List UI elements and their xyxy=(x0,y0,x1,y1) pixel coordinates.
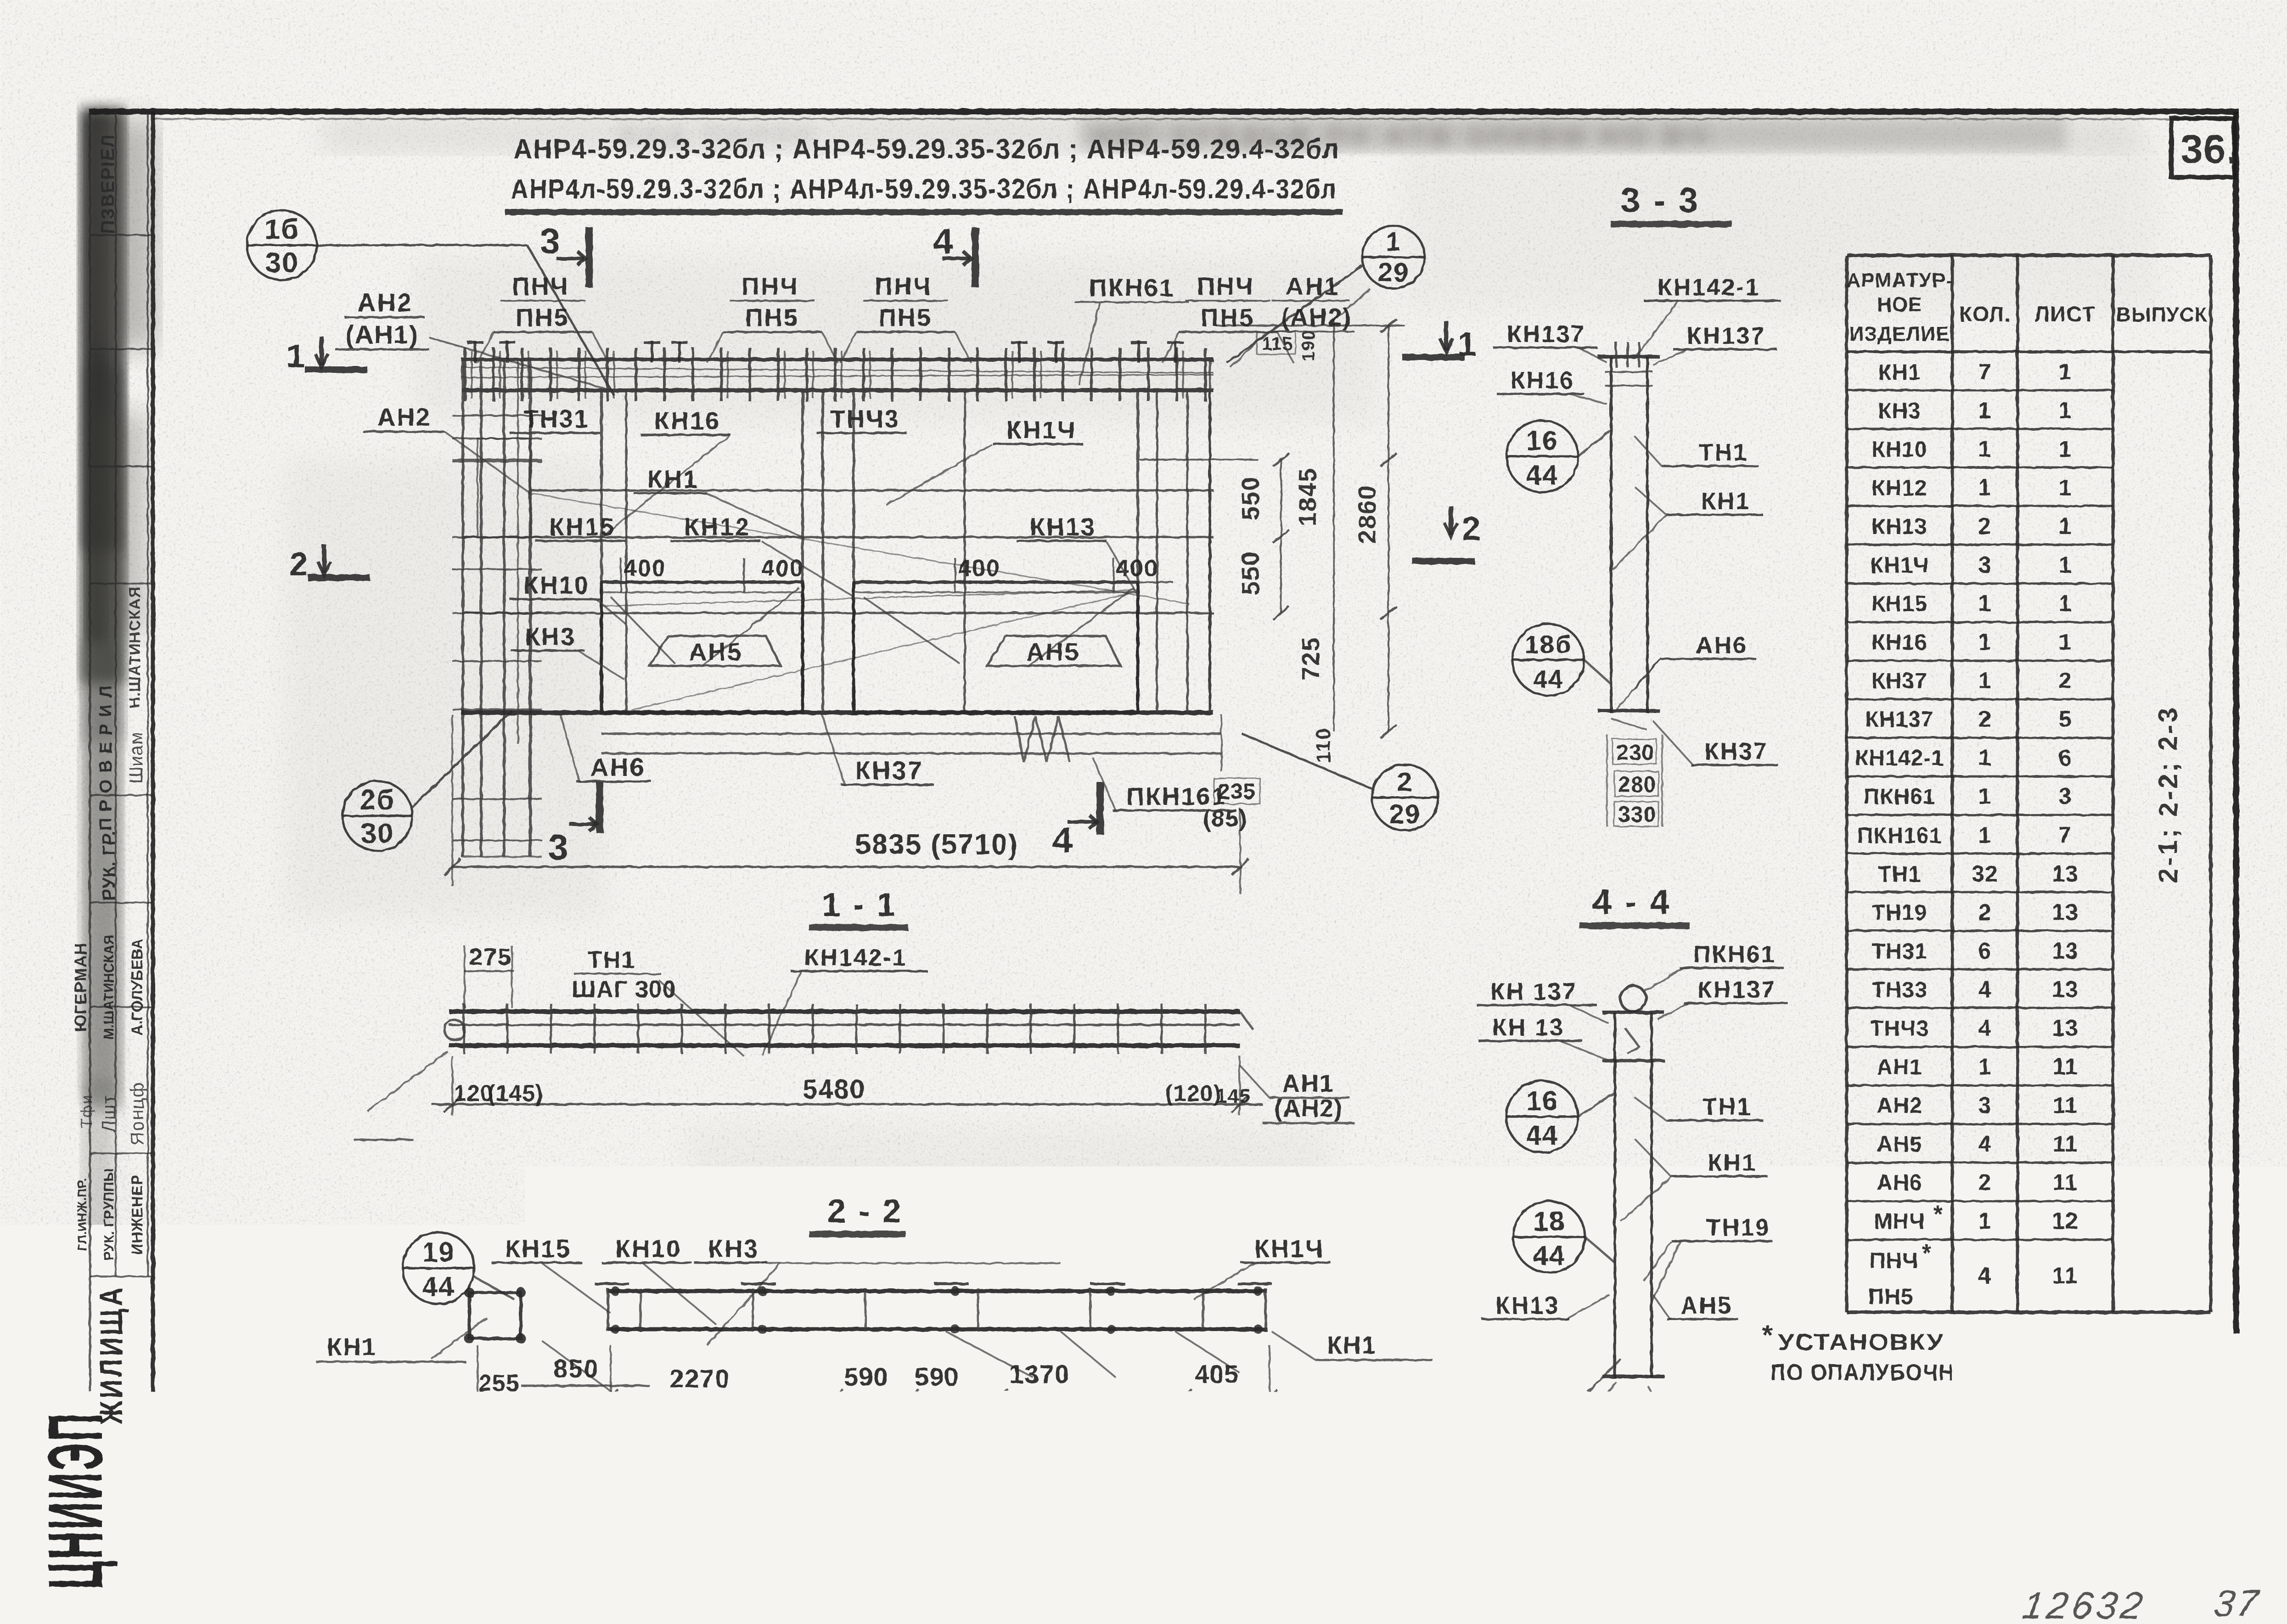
svg-text:АН5: АН5 xyxy=(689,638,742,666)
svg-text:ПКН161: ПКН161 xyxy=(1857,824,1942,848)
svg-text:С е р и я: С е р и я xyxy=(2094,1489,2187,1512)
svg-text:**: ** xyxy=(1781,1431,1799,1455)
svg-text:550: 550 xyxy=(1237,551,1264,595)
svg-text:КН37: КН37 xyxy=(1871,669,1927,693)
svg-text:2: 2 xyxy=(1978,513,1992,539)
svg-text:ПНЧ ДЛЯ ПАНЕЛЕЙ ТОЛЩИНОЙ 300,: ПНЧ ДЛЯ ПАНЕЛЕЙ ТОЛЩИНОЙ 300,350 xyxy=(1809,1434,2259,1457)
svg-text:*: * xyxy=(1922,1240,1932,1266)
svg-text:КН37: КН37 xyxy=(855,756,923,785)
svg-text:44: 44 xyxy=(1526,460,1559,490)
svg-text:Выпуск: Выпуск xyxy=(2074,1540,2153,1562)
svg-text:5: 5 xyxy=(2059,706,2072,732)
svg-text:КН 13: КН 13 xyxy=(1492,1014,1564,1041)
svg-text:ПЗВЕРIЕЛ: ПЗВЕРIЕЛ xyxy=(98,134,118,234)
svg-text:КН1Ч: КН1Ч xyxy=(1870,553,1929,578)
svg-text:5480: 5480 xyxy=(835,1402,899,1433)
svg-text:М.ШАТИНСКАЯ: М.ШАТИНСКАЯ xyxy=(101,935,117,1040)
svg-text:ПНЧ: ПНЧ xyxy=(875,273,932,300)
svg-text:13: 13 xyxy=(2052,899,2079,925)
svg-text:1: 1 xyxy=(2059,629,2072,655)
svg-text:Лшт: Лшт xyxy=(99,1095,119,1133)
svg-text:1: 1 xyxy=(1978,629,1992,655)
svg-text:КН37: КН37 xyxy=(1704,738,1768,765)
svg-text:ТНЧ3: ТНЧ3 xyxy=(1870,1017,1929,1041)
svg-text:29: 29 xyxy=(1378,258,1410,287)
svg-text:11: 11 xyxy=(2053,1092,2078,1118)
svg-text:16: 16 xyxy=(1526,425,1559,456)
svg-text:АРМАТУР-: АРМАТУР- xyxy=(1846,269,1953,292)
svg-text:АН2: АН2 xyxy=(357,288,413,317)
svg-text:1: 1 xyxy=(2059,513,2072,539)
svg-text:1 - 9: 1 - 9 xyxy=(2085,1563,2133,1587)
svg-text:5480: 5480 xyxy=(803,1074,865,1104)
svg-text:(145): (145) xyxy=(488,1080,544,1106)
svg-text:1: 1 xyxy=(2059,359,2072,385)
svg-text:1: 1 xyxy=(287,338,306,375)
svg-text:2-1; 2-2; 2-3: 2-1; 2-2; 2-3 xyxy=(2153,705,2183,883)
svg-text:ПН5: ПН5 xyxy=(745,304,799,332)
svg-text:КН16: КН16 xyxy=(1511,367,1574,394)
svg-text:КН12: КН12 xyxy=(684,513,750,541)
svg-text:ЮГЕРМАН: ЮГЕРМАН xyxy=(71,943,90,1032)
svg-text:ФАСАДА ПАНЕЛИ.: ФАСАДА ПАНЕЛИ. xyxy=(1791,1400,2089,1427)
svg-text:КН13: КН13 xyxy=(1871,515,1927,539)
svg-text:1: 1 xyxy=(1978,745,1992,770)
svg-text:КН3: КН3 xyxy=(525,623,576,651)
svg-text:110: 110 xyxy=(1312,728,1335,763)
svg-text:2: 2 xyxy=(289,546,309,583)
svg-text:КН16: КН16 xyxy=(1871,630,1927,655)
svg-text:Тфи: Тфи xyxy=(78,1094,96,1128)
svg-text:АН5: АН5 xyxy=(1877,1132,1922,1157)
svg-text:АН5: АН5 xyxy=(1680,1292,1732,1319)
svg-text:5835 (5710): 5835 (5710) xyxy=(855,829,1018,860)
svg-text:АН1: АН1 xyxy=(1282,1070,1334,1097)
svg-text:ТН1: ТН1 xyxy=(588,947,635,973)
svg-text:11: 11 xyxy=(2052,1263,2079,1288)
svg-text:30: 30 xyxy=(361,818,394,849)
svg-text:44: 44 xyxy=(1533,664,1563,693)
svg-text:АН6: АН6 xyxy=(1696,632,1748,659)
svg-text:2: 2 xyxy=(1462,511,1481,547)
svg-text:2270: 2270 xyxy=(669,1364,730,1393)
svg-text:КН15: КН15 xyxy=(505,1235,571,1263)
svg-text:КН137: КН137 xyxy=(1507,321,1585,348)
svg-text:ПНЧ: ПНЧ xyxy=(1870,1249,1918,1273)
svg-text:44: 44 xyxy=(1526,1120,1559,1151)
svg-text:ИНЖЕНЕР: ИНЖЕНЕР xyxy=(129,1174,146,1254)
svg-text:2: 2 xyxy=(1978,706,1992,732)
svg-text:3: 3 xyxy=(540,221,561,261)
svg-text:ПН5: ПН5 xyxy=(1868,1285,1914,1309)
svg-text:ТН31: ТН31 xyxy=(1871,939,1927,964)
svg-text:*: * xyxy=(1762,1320,1774,1350)
svg-text:4: 4 xyxy=(1978,977,1992,1002)
svg-text:4: 4 xyxy=(1978,1263,1992,1288)
svg-text:КН1: КН1 xyxy=(1878,360,1921,385)
svg-text:19: 19 xyxy=(422,1237,455,1268)
svg-text:3 - 3: 3 - 3 xyxy=(1621,181,1700,220)
svg-text:400: 400 xyxy=(761,555,804,582)
svg-text:7: 7 xyxy=(2059,822,2072,848)
svg-text:ЛИСТ: ЛИСТ xyxy=(2034,302,2096,326)
svg-text:КН1: КН1 xyxy=(1701,488,1750,515)
svg-text:КН142-1: КН142-1 xyxy=(1658,274,1760,301)
svg-text:ЦНИИЭП: ЦНИИЭП xyxy=(33,1412,118,1590)
svg-text:2б: 2б xyxy=(360,784,395,816)
svg-text:КН13: КН13 xyxy=(1495,1292,1559,1319)
svg-text:1: 1 xyxy=(2059,552,2072,578)
svg-text:1: 1 xyxy=(1978,822,1992,848)
svg-text:2 - 2: 2 - 2 xyxy=(827,1193,903,1230)
svg-text:(120): (120) xyxy=(1165,1080,1221,1106)
svg-text:ТН1: ТН1 xyxy=(1699,439,1748,466)
svg-text:2860: 2860 xyxy=(1354,485,1381,544)
svg-text:1: 1 xyxy=(1978,475,1992,500)
svg-text:3: 3 xyxy=(1978,1092,1992,1118)
svg-text:255: 255 xyxy=(478,1370,520,1397)
svg-text:13: 13 xyxy=(2052,977,2079,1002)
svg-text:275: 275 xyxy=(469,944,512,971)
svg-text:1: 1 xyxy=(2059,436,2072,462)
svg-text:НОЕ: НОЕ xyxy=(1877,293,1922,316)
svg-text:А.ГОЛУБЕВА: А.ГОЛУБЕВА xyxy=(129,938,146,1036)
svg-text:1845: 1845 xyxy=(1294,467,1321,526)
svg-text:12: 12 xyxy=(2052,1208,2079,1234)
svg-text:АН1: АН1 xyxy=(1877,1055,1922,1079)
svg-text:КН10: КН10 xyxy=(615,1235,681,1263)
svg-text:Н.ШАТИНСКАЯ: Н.ШАТИНСКАЯ xyxy=(126,586,144,708)
svg-text:2: 2 xyxy=(2059,668,2072,693)
svg-text:КН1Ч: КН1Ч xyxy=(1006,416,1076,444)
svg-text:мм: мм xyxy=(2261,1439,2286,1456)
svg-text:1: 1 xyxy=(1386,227,1401,257)
svg-text:2: 2 xyxy=(1978,1169,1992,1195)
svg-text:КН137: КН137 xyxy=(1865,708,1933,732)
svg-text:13: 13 xyxy=(2052,938,2079,964)
svg-text:КН37: КН37 xyxy=(1681,1405,1745,1431)
svg-text:КН1Ч: КН1Ч xyxy=(1254,1235,1324,1263)
svg-text:(АН1): (АН1) xyxy=(345,320,418,349)
svg-text:РУК. ГРУППЫ: РУК. ГРУППЫ xyxy=(101,1168,117,1260)
svg-text:12632: 12632 xyxy=(2020,1585,2149,1624)
svg-text:400: 400 xyxy=(958,555,1000,582)
svg-text:КН16: КН16 xyxy=(654,407,720,435)
svg-text:ПКН161: ПКН161 xyxy=(1126,783,1227,810)
svg-text:1: 1 xyxy=(2059,398,2072,423)
svg-text:АН6: АН6 xyxy=(1877,1171,1922,1195)
svg-text:1 - 1: 1 - 1 xyxy=(822,887,897,923)
svg-text:400: 400 xyxy=(624,555,666,582)
svg-text:ДАННЫЕ В СКОБКАХ: ДАННЫЕ В СКОБКАХ xyxy=(174,1399,450,1425)
svg-text:1: 1 xyxy=(1978,398,1992,423)
svg-text:1: 1 xyxy=(1978,1208,1992,1234)
svg-text:ПН5: ПН5 xyxy=(878,304,932,332)
svg-text:1973: 1973 xyxy=(164,1557,244,1596)
svg-text:ПКН61: ПКН61 xyxy=(1864,785,1936,809)
svg-text:ПАНЕЛИ ГРУППЫ НР4 ДЛИНОЙ: ПАНЕЛИ ГРУППЫ НР4 ДЛИНОЙ 6.0 М И БОЛЕЕ, … xyxy=(317,1498,1901,1530)
svg-text:УСТАНОВКУ МНЧ ПРОИЗВОДИТЬ: УСТАНОВКУ МНЧ ПРОИЗВОДИТЬ xyxy=(1778,1329,2232,1355)
svg-text:КОЛ.: КОЛ. xyxy=(1959,302,2011,326)
svg-text:П Р О В Е Р И Л: П Р О В Е Р И Л xyxy=(96,685,116,831)
svg-text:4: 4 xyxy=(1052,820,1073,860)
svg-text:3: 3 xyxy=(1978,552,1992,578)
svg-text:36.: 36. xyxy=(2180,126,2238,172)
svg-text:РУК. ГР.: РУК. ГР. xyxy=(100,831,119,901)
svg-text:АН2: АН2 xyxy=(377,404,431,431)
svg-text:145: 145 xyxy=(1216,1085,1251,1107)
svg-text:ПКН61: ПКН61 xyxy=(1089,274,1174,302)
svg-text:Яонцф: Яонцф xyxy=(127,1081,147,1145)
svg-text:ПН5: ПН5 xyxy=(516,304,569,332)
svg-text:4 - 4: 4 - 4 xyxy=(1592,882,1671,922)
svg-text:2: 2 xyxy=(1397,767,1413,797)
svg-text:3: 3 xyxy=(548,827,569,867)
svg-text:29: 29 xyxy=(1389,799,1421,829)
svg-text:280: 280 xyxy=(1618,773,1656,797)
svg-text:ТК: ТК xyxy=(169,1492,222,1539)
svg-text:АНР4-59.29.3-32бл ; АНР4-59.2: АНР4-59.29.3-32бл ; АНР4-59.29.35-32бл ;… xyxy=(513,134,1340,164)
svg-text:13: 13 xyxy=(2052,1015,2079,1041)
svg-text:37: 37 xyxy=(2211,1582,2263,1624)
svg-text:Лист: Лист xyxy=(2171,1541,2222,1564)
svg-text:ТН1: ТН1 xyxy=(1703,1094,1752,1120)
svg-text:ПКН61: ПКН61 xyxy=(1693,941,1776,968)
svg-text:1: 1 xyxy=(2059,590,2072,616)
svg-text:АН2: АН2 xyxy=(1877,1094,1922,1118)
svg-text:МНЧ: МНЧ xyxy=(1874,1209,1925,1234)
svg-text:2: 2 xyxy=(1978,899,1992,925)
svg-text:КН1: КН1 xyxy=(647,466,698,493)
svg-text:КН1: КН1 xyxy=(327,1333,376,1361)
svg-text:ПНЧ: ПНЧ xyxy=(1197,273,1254,300)
svg-text:*: * xyxy=(1933,1201,1944,1228)
svg-text:590: 590 xyxy=(915,1362,959,1391)
svg-text:КН142-1: КН142-1 xyxy=(804,944,907,971)
svg-text:КН3: КН3 xyxy=(1878,399,1921,423)
svg-text:6: 6 xyxy=(2059,745,2072,770)
svg-text:11: 11 xyxy=(2053,1054,2078,1079)
svg-text:КН3: КН3 xyxy=(708,1235,759,1263)
svg-text:44: 44 xyxy=(1533,1240,1566,1271)
svg-text:ТН1: ТН1 xyxy=(1878,862,1921,887)
svg-text:405: 405 xyxy=(1195,1360,1239,1388)
svg-text:1.132-2: 1.132-2 xyxy=(2088,1510,2185,1537)
svg-text:ПКН161: ПКН161 xyxy=(1489,1405,1586,1431)
svg-text:11: 11 xyxy=(2053,1169,2078,1195)
svg-text:КН13: КН13 xyxy=(1030,513,1096,541)
svg-text:4: 4 xyxy=(1978,1015,1992,1041)
svg-text:АРМАТУРНЫЕ БЛОКИ АНР4-59.29.: АРМАТУРНЫЕ БЛОКИ АНР4-59.29.3-32бл ; АНР… xyxy=(257,1563,2048,1590)
svg-text:1: 1 xyxy=(1978,668,1992,693)
svg-text:ПНЧ: ПНЧ xyxy=(742,273,799,300)
svg-text:7: 7 xyxy=(1978,359,1992,385)
svg-text:1: 1 xyxy=(1978,783,1992,809)
svg-text:4: 4 xyxy=(933,221,954,261)
svg-text:ПО ОПАЛУБОЧНОМУ ЧЕРТЕЖУ: ПО ОПАЛУБОЧНОМУ ЧЕРТЕЖУ xyxy=(1770,1360,2119,1385)
svg-text:АН5: АН5 xyxy=(1026,638,1080,666)
svg-text:КН10: КН10 xyxy=(523,572,590,599)
svg-text:190: 190 xyxy=(1299,329,1318,361)
svg-text:ВЫПУСК: ВЫПУСК xyxy=(2116,303,2207,326)
svg-text:АН1: АН1 xyxy=(1286,273,1339,300)
svg-text:1: 1 xyxy=(2059,475,2072,500)
svg-text:КН137: КН137 xyxy=(1687,323,1765,349)
svg-text:32: 32 xyxy=(1972,861,1998,887)
svg-text:(АН2): (АН2) xyxy=(1274,1095,1343,1122)
svg-text:(АН2): (АН2) xyxy=(1281,303,1352,331)
svg-text:44: 44 xyxy=(422,1271,455,1302)
svg-text:1: 1 xyxy=(1978,1054,1992,1079)
svg-text:ИЗДЕЛИЕ: ИЗДЕЛИЕ xyxy=(1849,323,1950,345)
svg-text:КН15: КН15 xyxy=(549,513,615,541)
svg-text:ПН5: ПН5 xyxy=(1201,304,1254,332)
svg-text:ТНЧ3: ТНЧ3 xyxy=(830,405,900,433)
svg-text:230: 230 xyxy=(1616,741,1654,765)
svg-text:1370: 1370 xyxy=(1009,1360,1070,1388)
svg-text:ПНЧ: ПНЧ xyxy=(512,273,569,300)
svg-text:КН142-1: КН142-1 xyxy=(1855,746,1944,770)
svg-text:КН1: КН1 xyxy=(1327,1332,1377,1359)
svg-text:Шиам: Шиам xyxy=(126,732,146,784)
svg-text:КН15: КН15 xyxy=(1871,592,1927,616)
svg-text:30: 30 xyxy=(265,247,299,279)
svg-text:ОТНОСЯТСЯ К АРМАТУР-: ОТНОСЯТСЯ К АРМАТУР- xyxy=(171,1429,491,1455)
svg-text:ТН31: ТН31 xyxy=(523,405,590,433)
svg-text:АНР4л-59.29.3-32бл ; АНР4л-59: АНР4л-59.29.3-32бл ; АНР4л-59.29.35-32бл… xyxy=(511,174,1337,204)
svg-text:725: 725 xyxy=(1297,636,1325,680)
svg-text:550: 550 xyxy=(1237,476,1264,520)
svg-text:16: 16 xyxy=(1526,1085,1559,1116)
svg-text:1б: 1б xyxy=(264,214,300,245)
svg-text:ТН33: ТН33 xyxy=(1871,978,1927,1002)
svg-text:330: 330 xyxy=(1618,803,1656,827)
svg-text:КН137: КН137 xyxy=(1697,977,1776,1003)
svg-text:18: 18 xyxy=(1533,1206,1566,1236)
svg-text:1: 1 xyxy=(1978,436,1992,462)
svg-text:ГЛ.ИНЖ.ПР.: ГЛ.ИНЖ.ПР. xyxy=(75,1178,89,1251)
svg-text:ШАГ 300: ШАГ 300 xyxy=(572,976,676,1003)
svg-text:11: 11 xyxy=(2053,1131,2078,1157)
svg-text:6: 6 xyxy=(1978,938,1992,964)
svg-text:КН1: КН1 xyxy=(1708,1150,1757,1176)
svg-text:22: 22 xyxy=(2186,1564,2215,1590)
svg-text:ТН19: ТН19 xyxy=(1871,901,1927,925)
svg-text:850: 850 xyxy=(553,1354,599,1383)
svg-text:4: 4 xyxy=(1978,1131,1992,1157)
svg-text:ЖИЛИЩА: ЖИЛИЩА xyxy=(94,1285,129,1425)
svg-text:1: 1 xyxy=(1978,590,1992,616)
svg-text:АН6: АН6 xyxy=(590,753,646,781)
svg-text:КН 137: КН 137 xyxy=(1490,978,1577,1005)
svg-text:КН12: КН12 xyxy=(1871,476,1927,500)
svg-text:18б: 18б xyxy=(1525,630,1572,659)
svg-text:13: 13 xyxy=(2052,861,2079,887)
svg-text:590: 590 xyxy=(844,1362,888,1391)
svg-text:КН10: КН10 xyxy=(1871,438,1927,462)
svg-text:3: 3 xyxy=(2059,783,2072,809)
svg-text:ТН19: ТН19 xyxy=(1706,1214,1770,1241)
